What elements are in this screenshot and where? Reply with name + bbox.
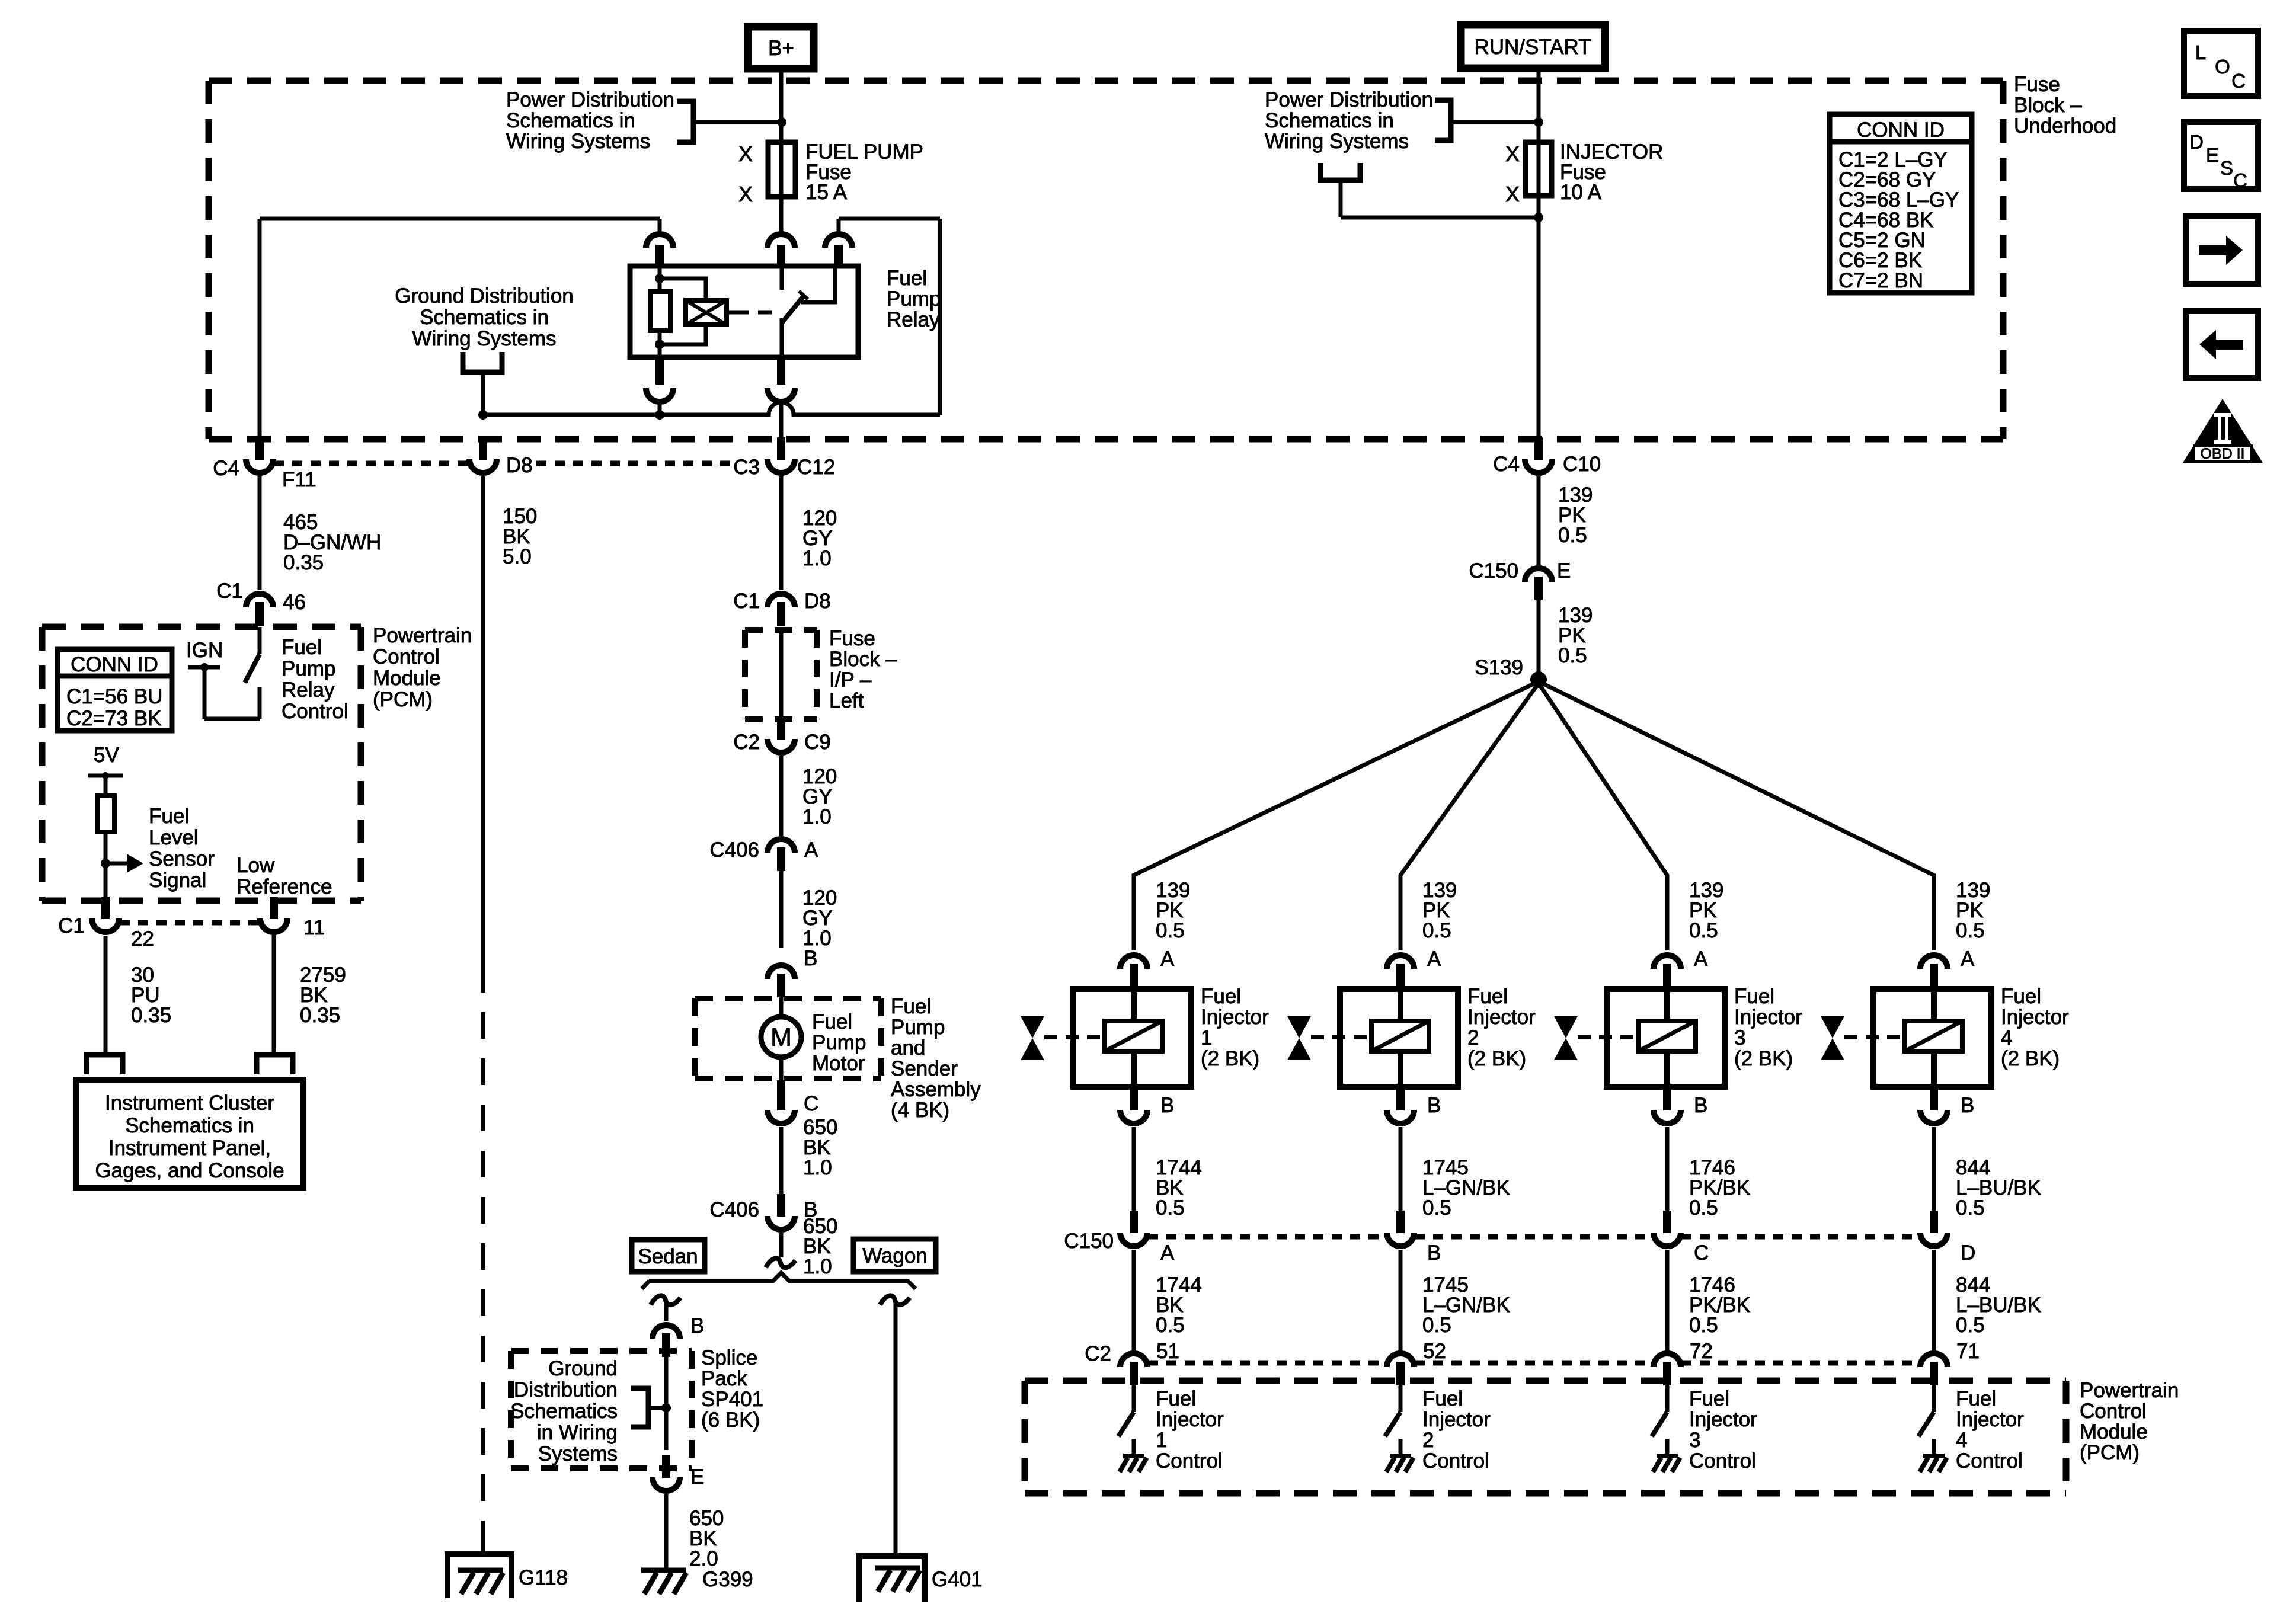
- svg-text:G401: G401: [932, 1568, 983, 1591]
- svg-text:Wiring Systems: Wiring Systems: [506, 130, 650, 153]
- icon arrow left: [2186, 311, 2258, 378]
- svg-text:Fuel: Fuel: [2001, 985, 2041, 1008]
- svg-text:Block –: Block –: [2014, 94, 2082, 117]
- connector C fuel pump: [768, 1080, 818, 1124]
- wire switch NC to bus: [839, 219, 940, 415]
- svg-text:G399: G399: [702, 1568, 753, 1591]
- wire break curl center: [766, 1258, 795, 1267]
- connector C2/72: [1654, 1353, 1681, 1385]
- connector C150/A: [1064, 1211, 1175, 1265]
- svg-text:C1: C1: [58, 914, 85, 937]
- svg-text:C1=56 BU: C1=56 BU: [66, 685, 162, 708]
- svg-text:Injector: Injector: [1201, 1006, 1269, 1029]
- instrument cluster box: [76, 1080, 303, 1188]
- svg-text:Reference: Reference: [236, 875, 332, 898]
- wire injector 3 to C150: [1665, 1127, 1670, 1215]
- connector B injector 3: [1654, 1088, 1707, 1124]
- junction dot run/start wire: [1534, 117, 1543, 127]
- svg-text:F11: F11: [282, 468, 316, 491]
- svg-text:Sender: Sender: [891, 1057, 958, 1080]
- connector 11: [260, 897, 325, 939]
- svg-text:I/P –: I/P –: [829, 668, 872, 692]
- svg-text:C: C: [2231, 70, 2246, 92]
- svg-text:Control: Control: [2080, 1400, 2147, 1423]
- svg-text:D: D: [2189, 131, 2204, 153]
- fuel injector 4: [1873, 985, 1991, 1089]
- connector B splice: [653, 1314, 704, 1357]
- svg-text:RUN/START: RUN/START: [1474, 36, 1591, 59]
- svg-text:Motor: Motor: [812, 1052, 865, 1075]
- PCM right dashed box: [1025, 1381, 2066, 1493]
- label 650 BK 1.0 (2): [803, 1215, 837, 1278]
- relay pin arc switch-nc: [825, 219, 852, 266]
- wire 2759 BK: [272, 932, 276, 1055]
- svg-text:Module: Module: [373, 667, 441, 690]
- svg-text:Block –: Block –: [829, 648, 897, 671]
- wire 650 BK 2.0: [664, 1494, 669, 1570]
- svg-text:Control: Control: [282, 700, 348, 723]
- relay coil solenoid: [660, 279, 775, 344]
- fuel injector 3: [1607, 985, 1725, 1089]
- connector C1/22: [58, 897, 154, 950]
- label Fuel Injector 3: [1734, 985, 1802, 1070]
- svg-text:D8: D8: [506, 454, 533, 477]
- svg-text:Schematics in: Schematics in: [506, 109, 635, 132]
- wire 650 BK (1): [779, 1127, 784, 1200]
- label 139 PK 0.5 (top): [1558, 484, 1593, 547]
- svg-text:X: X: [738, 182, 753, 206]
- svg-text:E: E: [1557, 559, 1571, 582]
- connector C150/D: [1920, 1211, 1975, 1265]
- connector C3/C12: [733, 437, 835, 479]
- svg-text:0.35: 0.35: [131, 1004, 171, 1027]
- svg-text:52: 52: [1423, 1340, 1446, 1363]
- fuel pump assembly dashed box: [695, 998, 881, 1078]
- svg-text:C1: C1: [216, 580, 243, 603]
- svg-text:Assembly: Assembly: [891, 1078, 981, 1101]
- svg-text:D: D: [1961, 1241, 1975, 1265]
- wire wagon branch: [894, 1304, 898, 1556]
- wire sedan branch: [664, 1304, 669, 1321]
- svg-text:C4: C4: [213, 457, 239, 480]
- wire S139 to injector 1: [1134, 681, 1539, 950]
- svg-text:C7=2 BN: C7=2 BN: [1838, 269, 1923, 292]
- connector B injector 1: [1120, 1088, 1174, 1124]
- svg-text:Injector: Injector: [2001, 1006, 2069, 1029]
- svg-text:Low: Low: [236, 854, 275, 877]
- label Power Distribution (right): [1265, 88, 1433, 153]
- svg-text:C2=73 BK: C2=73 BK: [66, 707, 162, 730]
- svg-text:B: B: [690, 1314, 704, 1337]
- svg-text:Fuel: Fuel: [1734, 985, 1774, 1008]
- svg-text:Sedan: Sedan: [638, 1245, 698, 1268]
- svg-text:Wiring Systems: Wiring Systems: [1265, 130, 1409, 153]
- svg-text:Relay: Relay: [887, 308, 940, 331]
- junction dot splice SP401: [661, 1403, 671, 1413]
- connector C1/46: [216, 580, 306, 626]
- svg-text:Pump: Pump: [812, 1031, 866, 1054]
- connector C2/71: [1920, 1353, 1948, 1385]
- svg-text:B: B: [1694, 1094, 1707, 1117]
- svg-text:Distribution: Distribution: [514, 1378, 618, 1401]
- connector A injector 4: [1920, 948, 1975, 987]
- svg-text:2: 2: [1467, 1026, 1479, 1049]
- wire 139 PK to C150E: [1537, 476, 1541, 565]
- connector C150/E: [1469, 559, 1571, 600]
- connector C1/D8: [733, 590, 831, 626]
- svg-text:C2: C2: [733, 731, 760, 754]
- svg-text:C10: C10: [1563, 453, 1601, 476]
- wire C4 vertical: [258, 219, 262, 440]
- connector C4/C10: [1493, 437, 1601, 476]
- label Ground Distribution Schematics: [395, 284, 574, 350]
- svg-text:Control: Control: [373, 645, 440, 668]
- svg-text:1.0: 1.0: [802, 547, 832, 570]
- arrow fuel level sensor signal: [105, 854, 143, 873]
- svg-text:Power Distribution: Power Distribution: [1265, 88, 1433, 111]
- bracket power distribution right: [1435, 100, 1539, 140]
- label Powertrain Control Module PCM (right): [2080, 1379, 2179, 1464]
- svg-text:51: 51: [1156, 1340, 1179, 1363]
- connector C2/C9: [733, 717, 831, 754]
- valve symbol injector 4: [1821, 1016, 1905, 1060]
- relay pin arc switch-in: [768, 197, 795, 266]
- label Fuel Injector 4 Control: [1956, 1387, 2024, 1473]
- svg-text:0.5: 0.5: [1956, 1314, 1985, 1337]
- label Fuel Injector 4: [2001, 985, 2069, 1070]
- svg-text:0.5: 0.5: [1156, 1196, 1185, 1219]
- svg-text:O: O: [2215, 56, 2230, 78]
- svg-text:1.0: 1.0: [802, 805, 832, 828]
- svg-text:X: X: [1505, 182, 1520, 206]
- connector A injector 3: [1654, 948, 1708, 987]
- svg-text:Injector: Injector: [1689, 1408, 1757, 1431]
- bracket instrument cluster left: [87, 1055, 123, 1074]
- relay pin arc coil+: [646, 219, 673, 266]
- label 139 PK 0.5 (mid): [1558, 604, 1593, 667]
- svg-text:Instrument Cluster: Instrument Cluster: [105, 1092, 274, 1115]
- label pin 51: [1156, 1340, 1179, 1363]
- svg-text:A: A: [1160, 1241, 1175, 1265]
- svg-text:0.5: 0.5: [1956, 1196, 1985, 1219]
- wire injector fuse to C10: [1537, 196, 1541, 438]
- connector B fuel pump: [768, 947, 817, 997]
- svg-text:1.0: 1.0: [803, 1156, 832, 1179]
- svg-text:CONN ID: CONN ID: [71, 653, 158, 676]
- svg-text:Fuel: Fuel: [1689, 1387, 1729, 1410]
- wire 120 GY lower: [779, 871, 784, 948]
- label ground distribution splice: [510, 1357, 618, 1465]
- fuel pump motor M: [761, 997, 801, 1082]
- label 1745 upper: [1422, 1156, 1510, 1219]
- svg-text:B: B: [1427, 1241, 1441, 1265]
- svg-text:4: 4: [2001, 1026, 2012, 1049]
- wire 120 GY upper: [779, 476, 784, 590]
- connector line C150 row: [1148, 1234, 1920, 1240]
- wire break curl wagon: [880, 1295, 910, 1305]
- switch fuel injector 2 control: [1385, 1381, 1400, 1456]
- label Splice Pack SP401: [701, 1346, 763, 1432]
- label Fuel Pump Relay Control: [282, 636, 348, 723]
- wire injector 4 to C2: [1932, 1250, 1936, 1351]
- svg-text:Pump: Pump: [282, 657, 335, 680]
- label Fuel Pump and Sender Assembly: [891, 995, 981, 1122]
- svg-text:G118: G118: [519, 1566, 568, 1589]
- node RUN/START: [1461, 25, 1605, 68]
- node B+: [748, 27, 814, 69]
- svg-text:Relay: Relay: [282, 678, 335, 702]
- connector line C2 row: [1148, 1361, 1920, 1366]
- svg-text:X: X: [738, 142, 753, 166]
- svg-text:Fuse: Fuse: [2014, 73, 2060, 96]
- svg-text:Pack: Pack: [701, 1367, 747, 1390]
- label pin 72: [1690, 1340, 1713, 1363]
- svg-text:Powertrain: Powertrain: [2080, 1379, 2179, 1402]
- svg-text:Fuel: Fuel: [1422, 1387, 1463, 1410]
- label Fuel Injector 3 Control: [1689, 1387, 1757, 1473]
- svg-text:C150: C150: [1064, 1230, 1114, 1253]
- svg-text:Schematics in: Schematics in: [1265, 109, 1394, 132]
- wire injector 1 to C2: [1132, 1250, 1136, 1351]
- svg-text:0.5: 0.5: [1422, 919, 1451, 942]
- svg-text:0.35: 0.35: [300, 1004, 340, 1027]
- relay box fuel pump relay: [630, 266, 858, 357]
- svg-text:Schematics: Schematics: [510, 1400, 618, 1423]
- junction dot D8 ground: [478, 410, 488, 420]
- svg-text:E: E: [2206, 144, 2219, 166]
- valve symbol injector 1: [1021, 1016, 1105, 1060]
- CONN ID table (underhood): [1830, 114, 1972, 293]
- svg-text:15 A: 15 A: [805, 181, 848, 204]
- svg-text:Powertrain: Powertrain: [373, 624, 472, 647]
- label 1746 upper: [1689, 1156, 1750, 1219]
- PCM left dashed box: [42, 627, 361, 901]
- svg-text:11: 11: [303, 916, 325, 939]
- valve symbol injector 3: [1554, 1016, 1638, 1060]
- label Low Reference: [236, 854, 332, 898]
- svg-text:C: C: [1694, 1241, 1709, 1265]
- svg-text:Control: Control: [1156, 1449, 1223, 1473]
- label pin 52: [1423, 1340, 1446, 1363]
- label Power Distribution (left): [506, 88, 674, 153]
- svg-text:C406: C406: [709, 838, 759, 862]
- svg-text:Underhood: Underhood: [2014, 114, 2116, 137]
- svg-text:0.5: 0.5: [1156, 919, 1185, 942]
- svg-text:Fuel: Fuel: [1156, 1387, 1196, 1410]
- icon LOC: [2184, 31, 2258, 96]
- bracket instrument cluster right: [257, 1055, 293, 1074]
- label INJECTOR Fuse 10 A: [1560, 140, 1663, 204]
- label Fuse Block - Underhood: [2014, 73, 2116, 137]
- svg-text:Signal: Signal: [149, 869, 206, 892]
- svg-text:Left: Left: [829, 689, 864, 712]
- svg-text:Control: Control: [1956, 1449, 2023, 1473]
- label 120 GY 1.0 (2): [802, 765, 837, 828]
- fuse X marks left: [738, 142, 753, 206]
- wire through IP fuse block: [779, 627, 784, 722]
- svg-text:C1: C1: [733, 590, 760, 613]
- connector C2/52: [1387, 1353, 1414, 1385]
- label 650 BK 2.0: [689, 1507, 724, 1570]
- connector C4/F11: [213, 437, 316, 491]
- svg-text:(2 BK): (2 BK): [1734, 1047, 1793, 1070]
- node 5V: [88, 744, 123, 779]
- svg-text:Wiring Systems: Wiring Systems: [412, 327, 556, 350]
- svg-text:A: A: [1694, 948, 1708, 971]
- svg-text:Fuel: Fuel: [887, 267, 927, 290]
- fuse X marks right: [1505, 142, 1520, 206]
- wire relay ground bus: [483, 402, 940, 415]
- wire break curl sedan: [651, 1295, 680, 1305]
- svg-text:(2 BK): (2 BK): [1201, 1047, 1259, 1070]
- svg-text:Injector: Injector: [1956, 1408, 2024, 1431]
- svg-text:A: A: [1160, 948, 1175, 971]
- fuel injector 1: [1073, 985, 1191, 1089]
- wire sensor to C1/22: [104, 863, 108, 902]
- label 120 GY 1.0 (1): [802, 507, 837, 570]
- connector C406/A: [709, 838, 818, 871]
- wire 120 GY mid: [779, 756, 784, 836]
- connector C2/51: [1085, 1342, 1147, 1385]
- relay bottom pin coil-: [646, 357, 673, 415]
- wire coil feed horizontal: [260, 217, 660, 221]
- svg-text:A: A: [1427, 948, 1441, 971]
- bracket ground distribution: [463, 352, 502, 415]
- svg-text:(6 BK): (6 BK): [701, 1409, 760, 1432]
- svg-text:(4 BK): (4 BK): [891, 1099, 949, 1122]
- label 650 BK 1.0 (1): [803, 1116, 837, 1179]
- svg-text:0.5: 0.5: [1422, 1314, 1451, 1337]
- label 844 upper: [1956, 1156, 2041, 1219]
- junction dot B+ wire: [777, 117, 786, 127]
- label 30 PU 0.35: [131, 964, 171, 1027]
- wire 465 D-GN/WH: [258, 476, 262, 590]
- svg-text:Sensor: Sensor: [149, 847, 215, 870]
- svg-text:C12: C12: [797, 456, 835, 479]
- label 465 D-GN/WH 0.35: [283, 511, 381, 574]
- connector A injector 1: [1120, 948, 1175, 987]
- svg-text:X: X: [1505, 142, 1520, 166]
- svg-text:0.5: 0.5: [1689, 1196, 1718, 1219]
- svg-text:3: 3: [1734, 1026, 1745, 1049]
- svg-text:0.5: 0.5: [1156, 1314, 1185, 1337]
- svg-text:C: C: [2233, 169, 2247, 191]
- svg-text:1: 1: [1201, 1026, 1212, 1049]
- svg-text:5.0: 5.0: [503, 545, 532, 568]
- svg-text:Ground: Ground: [548, 1357, 618, 1380]
- bracket splice pack: [631, 1388, 666, 1427]
- connector line fuse block bottom: [274, 461, 730, 466]
- svg-text:5V: 5V: [94, 744, 119, 767]
- svg-text:A: A: [804, 838, 818, 862]
- ground G118: [447, 1538, 568, 1598]
- svg-text:B: B: [804, 947, 817, 970]
- junction dot relay coil ground: [655, 410, 664, 420]
- svg-text:0.5: 0.5: [1689, 1314, 1718, 1337]
- svg-text:Fuse: Fuse: [829, 627, 875, 650]
- connector C150/C: [1654, 1211, 1709, 1265]
- label 139 PK 0.5 (injector 2): [1422, 879, 1457, 942]
- switch fuel pump relay control: [204, 627, 260, 719]
- svg-text:C9: C9: [804, 731, 831, 754]
- svg-text:Schematics in: Schematics in: [125, 1114, 254, 1137]
- wire 150 BK dashed: [481, 966, 485, 1554]
- wire 30 PU: [104, 936, 108, 1055]
- wire 650 BK (2): [779, 1233, 784, 1257]
- svg-text:D8: D8: [804, 590, 831, 613]
- connector C406/B: [709, 1194, 817, 1230]
- svg-text:Injector: Injector: [1156, 1408, 1224, 1431]
- label 1744 lower: [1156, 1273, 1202, 1337]
- svg-text:46: 46: [283, 591, 306, 614]
- svg-text:71: 71: [1956, 1340, 1980, 1363]
- switch fuel injector 4 control: [1918, 1381, 1934, 1456]
- svg-text:Power Distribution: Power Distribution: [506, 88, 674, 111]
- splice pack dashed box: [511, 1351, 692, 1468]
- ground G401: [859, 1556, 983, 1602]
- svg-text:OBD II: OBD II: [2200, 446, 2244, 462]
- svg-text:Pump: Pump: [887, 287, 941, 311]
- label Fuel Pump Motor: [812, 1010, 866, 1075]
- junction dot sensor signal: [101, 859, 110, 868]
- relay coil resistor: [650, 266, 670, 357]
- wire B+ to fuse: [779, 66, 784, 232]
- svg-text:SP401: SP401: [701, 1388, 763, 1411]
- fuse block underhood dashed box: [209, 81, 2003, 439]
- icon DESC: [2184, 122, 2258, 191]
- wire S139 to injector 3: [1539, 683, 1667, 950]
- icon arrow right: [2186, 216, 2258, 284]
- connector A injector 2: [1387, 948, 1441, 987]
- svg-text:Fuel: Fuel: [1956, 1387, 1996, 1410]
- svg-text:B: B: [1961, 1094, 1974, 1117]
- connector line PCM bottom: [120, 920, 260, 926]
- svg-text:1.0: 1.0: [803, 1255, 832, 1278]
- connector C150/B: [1387, 1211, 1441, 1265]
- svg-text:S: S: [2220, 157, 2233, 179]
- node Sedan: [632, 1240, 705, 1272]
- label 2759 BK 0.35: [300, 964, 346, 1027]
- svg-text:3: 3: [1689, 1429, 1700, 1452]
- sedan wagon split line: [642, 1273, 916, 1289]
- label 1744 upper: [1156, 1156, 1202, 1219]
- svg-text:C150: C150: [1469, 559, 1518, 582]
- label 1745 lower: [1422, 1273, 1510, 1337]
- svg-text:1: 1: [1156, 1429, 1167, 1452]
- svg-text:B: B: [1427, 1094, 1441, 1117]
- svg-text:2: 2: [1422, 1429, 1434, 1452]
- wire injector 2 to C150: [1399, 1127, 1403, 1215]
- svg-text:0.5: 0.5: [1558, 644, 1587, 667]
- svg-text:E: E: [690, 1465, 704, 1489]
- svg-text:72: 72: [1690, 1340, 1713, 1363]
- svg-text:A: A: [1961, 948, 1975, 971]
- svg-text:Splice: Splice: [701, 1346, 757, 1369]
- label 844 lower: [1956, 1273, 2041, 1337]
- label 1746 lower: [1689, 1273, 1750, 1337]
- ground fuel injector 4 control: [1920, 1456, 1947, 1472]
- svg-text:CONN ID: CONN ID: [1857, 119, 1945, 142]
- switch fuel injector 1 control: [1118, 1381, 1134, 1456]
- svg-text:C406: C406: [709, 1198, 759, 1221]
- svg-text:C4: C4: [1493, 453, 1520, 476]
- node IGN: [186, 639, 223, 671]
- svg-text:0.5: 0.5: [1689, 919, 1718, 942]
- label pin 71: [1956, 1340, 1980, 1363]
- relay switch: [782, 266, 835, 357]
- valve symbol injector 2: [1287, 1016, 1371, 1060]
- svg-text:Fuel: Fuel: [812, 1010, 852, 1033]
